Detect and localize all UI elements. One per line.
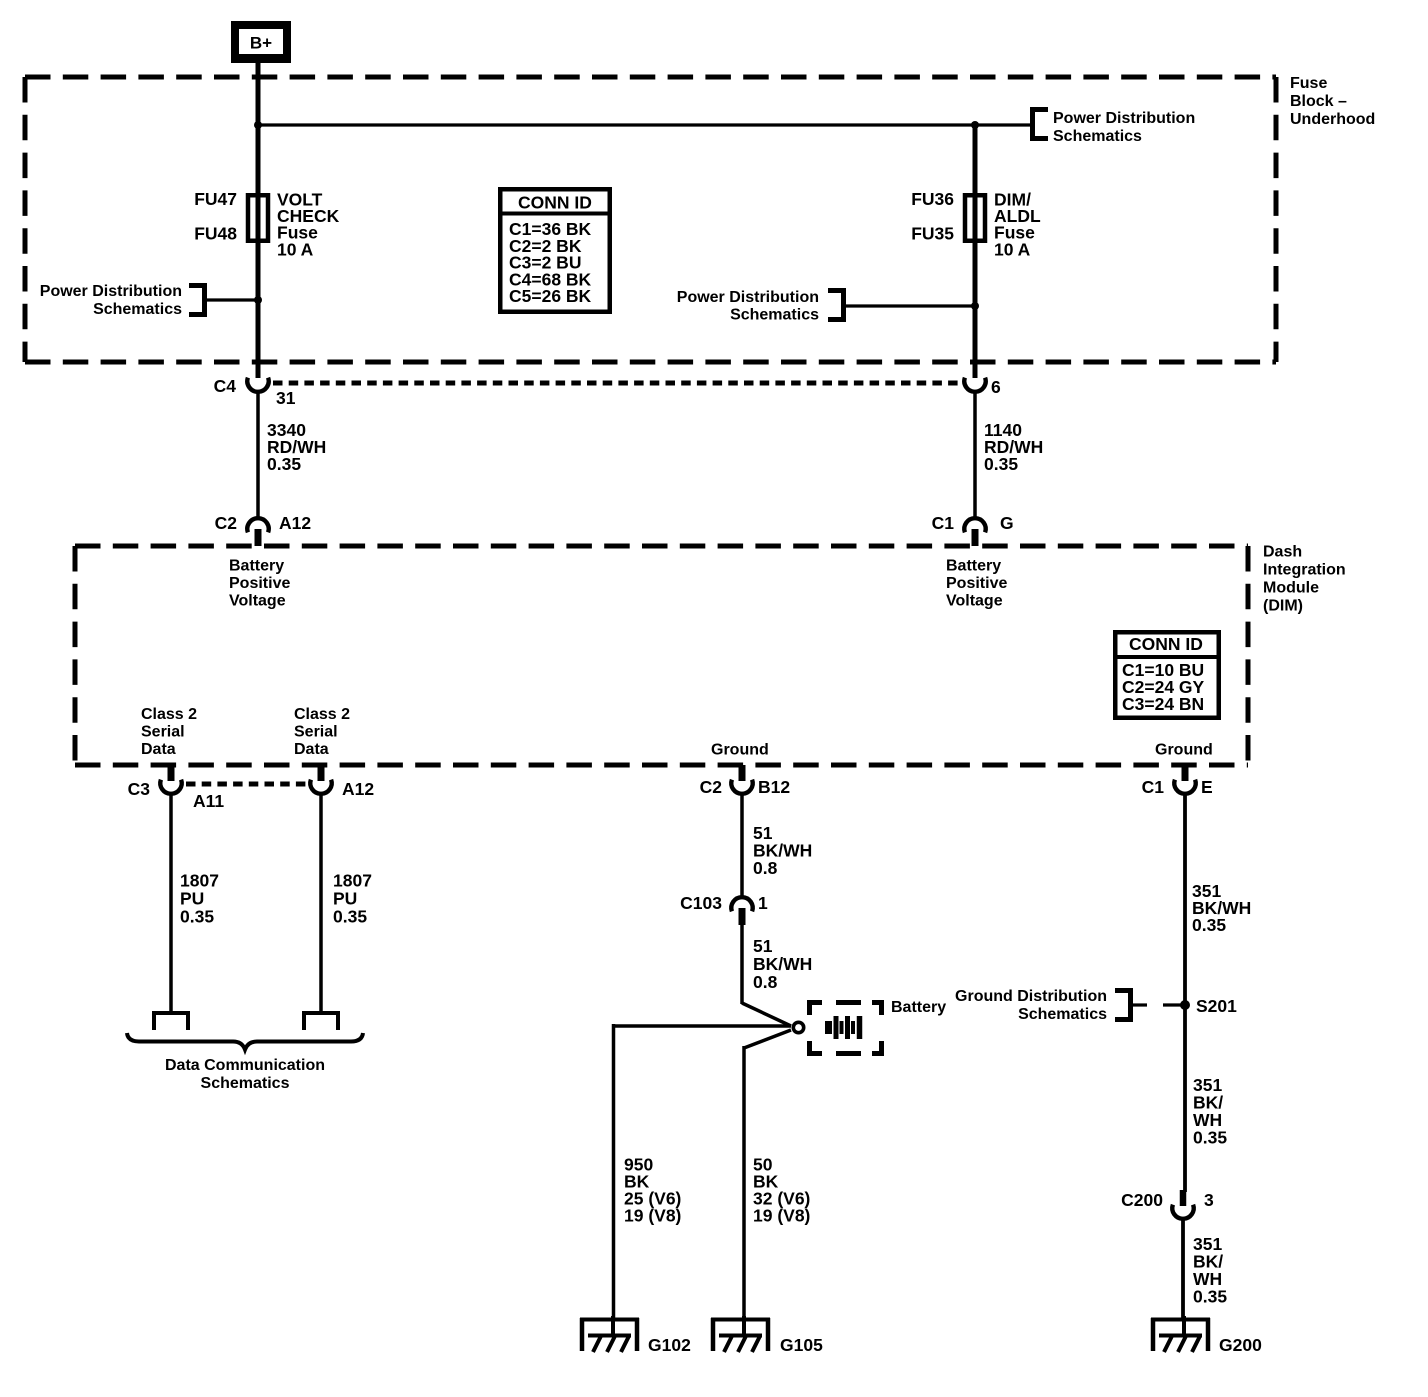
svg-text:Ground: Ground <box>711 742 769 759</box>
svg-text:Module: Module <box>1263 580 1319 597</box>
label S201 <box>1196 996 1237 1016</box>
wire ground bus horizontal to battery node <box>612 1024 791 1028</box>
battery component dashed outline <box>807 1000 884 1056</box>
label G105 <box>780 1335 823 1355</box>
ground G200 symbol <box>1151 1316 1210 1352</box>
label G102 <box>648 1335 691 1355</box>
connector C1 pin E (DIM ground) <box>1174 765 1195 794</box>
label wire 51 BK/WH 0.8 (upper) <box>753 823 812 878</box>
label Dash Integration Module (DIM) <box>1263 544 1346 615</box>
svg-text:FU48: FU48 <box>194 223 237 243</box>
svg-text:1: 1 <box>758 893 768 913</box>
label FU48 <box>194 223 237 243</box>
svg-text:Ground Distribution: Ground Distribution <box>955 988 1107 1005</box>
svg-text:C4: C4 <box>214 376 237 396</box>
wire FU35 down to connector 6 <box>973 243 978 378</box>
svg-text:A11: A11 <box>193 791 224 811</box>
label G200 <box>1219 1335 1262 1355</box>
svg-text:Data: Data <box>294 741 329 758</box>
label class 2 serial data (right) <box>294 706 350 758</box>
label C1 <box>932 513 955 533</box>
svg-text:Dash: Dash <box>1263 544 1302 561</box>
svg-text:0.35: 0.35 <box>1193 1128 1227 1148</box>
wire diagonal C103 run to battery node <box>742 1003 791 1026</box>
wire 1807 PU right run <box>319 794 323 1013</box>
node junction on B+ bus at VOLT CHECK fuse <box>254 121 262 129</box>
wire bracket stem to DIM/ALDL fuse wire <box>846 304 975 307</box>
connector C1 pin G (DIM input) <box>964 518 985 546</box>
svg-text:Positive: Positive <box>946 575 1007 592</box>
label C2 (ground) <box>700 777 723 797</box>
node junction on B+ bus at DIM/ALDL fuse <box>971 121 979 129</box>
label wire 351 BK/WH 0.35 (middle) <box>1193 1075 1227 1148</box>
svg-text:E: E <box>1201 777 1213 797</box>
label C4 <box>214 376 237 396</box>
label ground (right) <box>1155 742 1213 759</box>
svg-text:C3: C3 <box>128 779 151 799</box>
svg-text:B12: B12 <box>758 777 790 797</box>
svg-text:Power Distribution: Power Distribution <box>677 289 819 306</box>
label C2 <box>215 513 238 533</box>
svg-text:Battery: Battery <box>229 558 284 575</box>
connector A12 (class 2 serial data) <box>310 765 331 794</box>
label C1 (ground) <box>1142 777 1165 797</box>
label wire 3340 RD/WH 0.35 <box>267 420 326 474</box>
wire diagonal battery node to G105 run <box>744 1030 791 1048</box>
fuse FU47/FU48 VOLT CHECK 10A <box>248 195 268 243</box>
svg-text:Class 2: Class 2 <box>141 706 197 723</box>
wire 1807 PU left run <box>169 794 173 1013</box>
svg-text:Battery: Battery <box>891 999 946 1016</box>
svg-text:C103: C103 <box>680 893 722 913</box>
conn id table fuse block <box>498 189 612 312</box>
wire bracket stem to VOLT CHECK fuse wire <box>207 298 258 301</box>
bracket reference power distribution (top right) <box>1030 107 1048 141</box>
svg-text:Serial: Serial <box>141 724 185 741</box>
label pin B12 <box>758 777 790 797</box>
svg-text:Block –: Block – <box>1290 93 1347 110</box>
svg-text:1807: 1807 <box>180 871 219 891</box>
svg-text:0.35: 0.35 <box>180 907 214 927</box>
svg-text:C1: C1 <box>932 513 955 533</box>
svg-text:0.8: 0.8 <box>753 858 778 878</box>
label pin A12 (DIM bottom) <box>342 779 374 799</box>
svg-text:Fuse: Fuse <box>1290 75 1327 92</box>
connector C4 pin 31 (fuse block output) <box>247 378 268 392</box>
label pin 6 <box>991 377 1001 397</box>
svg-text:19 (V8): 19 (V8) <box>753 1206 810 1226</box>
svg-text:Schematics: Schematics <box>201 1075 290 1092</box>
svg-text:BK/WH: BK/WH <box>753 954 812 974</box>
node junction at DIM/ALDL fuse wire <box>971 302 979 310</box>
node battery terminal ring <box>793 1022 803 1032</box>
svg-text:S201: S201 <box>1196 996 1237 1016</box>
wire 51 BK/WH lower run <box>740 922 744 1004</box>
wire 50 BK run to G105 <box>742 1046 746 1318</box>
wire 950 BK run to G102 <box>612 1024 616 1318</box>
svg-text:3: 3 <box>1204 1190 1214 1210</box>
svg-text:Class 2: Class 2 <box>294 706 350 723</box>
svg-text:G200: G200 <box>1219 1335 1262 1355</box>
svg-text:Positive: Positive <box>229 575 290 592</box>
svg-text:CONN ID: CONN ID <box>1129 634 1203 654</box>
fuse FU36/FU35 DIM/ALDL 10A <box>965 125 985 243</box>
svg-text:C1: C1 <box>1142 777 1165 797</box>
label wire 1807 PU 0.35 (right) <box>333 871 372 927</box>
wire stem segment to S201 splice <box>1163 1003 1183 1006</box>
svg-text:G: G <box>1000 513 1014 533</box>
splice S201 node <box>1180 1000 1190 1010</box>
bracket reference power distribution (mid right) <box>828 288 846 322</box>
svg-text:Voltage: Voltage <box>229 593 286 610</box>
svg-text:10 A: 10 A <box>277 239 314 259</box>
connector C103 pin 1 <box>731 897 752 925</box>
wire bus stub to power distribution reference <box>975 123 1030 126</box>
terminal symbol left (data link) <box>154 1013 188 1030</box>
svg-text:0.35: 0.35 <box>1193 1287 1227 1307</box>
connector C2 pin B12 (DIM ground) <box>731 765 752 794</box>
svg-text:Power Distribution: Power Distribution <box>1053 110 1195 127</box>
wire B+ feed down to fuse FU47/FU48 <box>256 61 261 195</box>
label pin A11 <box>193 791 224 811</box>
label data communication schematics <box>165 1057 325 1092</box>
label wire 351 BK/WH 0.35 (lower) <box>1193 1234 1227 1307</box>
label DIM/ ALDL Fuse 10 A <box>994 190 1041 260</box>
label pin A12 <box>279 513 311 533</box>
connector C3 pin A11 (class 2 serial data) <box>160 765 181 794</box>
dotted connector tie line C3 to A12 <box>186 782 307 787</box>
label pin E <box>1201 777 1213 797</box>
svg-text:Schematics: Schematics <box>93 301 182 318</box>
label wire 50 BK 32 (V6) 19 (V8) <box>753 1155 810 1226</box>
svg-text:FU47: FU47 <box>194 189 237 209</box>
label power distribution schematics (mid right) <box>677 289 819 324</box>
svg-text:Battery: Battery <box>946 558 1001 575</box>
label Fuse Block - Underhood <box>1290 75 1375 128</box>
wire FU48 down to connector C4 <box>256 243 261 378</box>
svg-text:Power Distribution: Power Distribution <box>40 283 182 300</box>
dash integration module dashed box <box>75 546 1248 765</box>
svg-text:A12: A12 <box>279 513 311 533</box>
svg-text:C2: C2 <box>700 777 723 797</box>
svg-text:B+: B+ <box>250 34 272 53</box>
ground G102 symbol <box>580 1316 639 1352</box>
conn id table DIM <box>1113 632 1221 718</box>
svg-text:31: 31 <box>276 388 296 408</box>
label ground (mid) <box>711 742 769 759</box>
bracket reference ground distribution <box>1115 988 1133 1022</box>
terminal symbol right (data link) <box>304 1013 338 1030</box>
label class 2 serial data (left) <box>141 706 197 758</box>
node junction at VOLT CHECK fuse wire <box>254 296 262 304</box>
svg-text:0.35: 0.35 <box>984 454 1018 474</box>
fuse block underhood dashed box <box>25 77 1276 362</box>
svg-text:0.35: 0.35 <box>333 907 367 927</box>
wire 351 BK/WH upper run <box>1183 794 1187 1192</box>
label battery positive voltage (left) <box>229 558 290 610</box>
svg-text:C5=26 BK: C5=26 BK <box>509 286 592 306</box>
B+ battery positive terminal symbol <box>231 21 291 63</box>
svg-text:Voltage: Voltage <box>946 593 1003 610</box>
svg-text:0.35: 0.35 <box>267 454 301 474</box>
label pin G <box>1000 513 1014 533</box>
svg-text:Data: Data <box>141 741 176 758</box>
wire 1140 RD/WH from 6 to C1 <box>973 392 977 518</box>
brace data communication schematics <box>127 1033 363 1050</box>
label pin 31 <box>276 388 296 408</box>
svg-text:C3=24 BN: C3=24 BN <box>1122 694 1204 714</box>
label VOLT CHECK Fuse 10 A <box>277 190 340 260</box>
svg-text:CONN ID: CONN ID <box>518 193 592 213</box>
label power distribution schematics (left) <box>40 283 182 318</box>
label wire 351 BK/WH 0.35 (upper) <box>1192 881 1251 935</box>
dotted connector tie line C4 to 6 <box>273 381 961 386</box>
label FU47 <box>194 189 237 209</box>
label wire 1807 PU 0.35 (left) <box>180 871 219 927</box>
svg-text:C200: C200 <box>1121 1190 1163 1210</box>
svg-text:Serial: Serial <box>294 724 338 741</box>
svg-text:Schematics: Schematics <box>1053 128 1142 145</box>
svg-text:0.8: 0.8 <box>753 972 778 992</box>
svg-text:Schematics: Schematics <box>730 307 819 324</box>
svg-text:51: 51 <box>753 936 773 956</box>
label wire 1140 RD/WH 0.35 <box>984 420 1043 474</box>
label battery positive voltage (right) <box>946 558 1007 610</box>
label FU35 <box>911 223 954 243</box>
svg-text:Schematics: Schematics <box>1018 1006 1107 1023</box>
svg-text:Integration: Integration <box>1263 562 1346 579</box>
label battery <box>891 999 946 1016</box>
label pin 3 <box>1204 1190 1214 1210</box>
svg-text:1807: 1807 <box>333 871 372 891</box>
connector 6 (fuse block output) <box>964 378 985 392</box>
label power distribution schematics (top right) <box>1053 110 1195 145</box>
svg-text:Data Communication: Data Communication <box>165 1057 325 1074</box>
connector C200 pin 3 <box>1172 1190 1193 1219</box>
svg-text:(DIM): (DIM) <box>1263 598 1303 615</box>
label C3 <box>128 779 151 799</box>
connector C2 pin A12 (DIM input) <box>247 518 268 546</box>
wire 351 BK/WH lower run to G200 <box>1181 1219 1185 1318</box>
label pin 1 <box>758 893 768 913</box>
svg-text:PU: PU <box>333 889 357 909</box>
svg-text:19 (V8): 19 (V8) <box>624 1206 681 1226</box>
label C200 <box>1121 1190 1163 1210</box>
label FU36 <box>911 189 954 209</box>
bracket reference power distribution (left) <box>189 283 207 317</box>
svg-text:10 A: 10 A <box>994 239 1031 259</box>
label ground distribution schematics <box>955 988 1107 1023</box>
svg-text:PU: PU <box>180 889 204 909</box>
svg-text:Ground: Ground <box>1155 742 1213 759</box>
svg-text:Underhood: Underhood <box>1290 111 1375 128</box>
svg-text:FU36: FU36 <box>911 189 954 209</box>
wire 51 BK/WH upper run <box>740 794 744 897</box>
svg-text:6: 6 <box>991 377 1001 397</box>
label wire 51 BK/WH 0.8 (lower) <box>753 936 812 992</box>
ground G105 symbol <box>711 1316 770 1352</box>
wire bus from B+ node to DIM/ALDL fuse branch <box>258 123 975 126</box>
svg-text:G102: G102 <box>648 1335 691 1355</box>
wire bracket stem toward S201 <box>1133 1003 1147 1006</box>
label C103 <box>680 893 722 913</box>
svg-text:0.35: 0.35 <box>1192 915 1226 935</box>
svg-text:C2: C2 <box>215 513 238 533</box>
label wire 950 BK 25 (V6) 19 (V8) <box>624 1155 681 1226</box>
svg-text:FU35: FU35 <box>911 223 954 243</box>
svg-text:G105: G105 <box>780 1335 823 1355</box>
svg-text:A12: A12 <box>342 779 374 799</box>
wire 3340 RD/WH from C4 to C2 <box>256 392 260 518</box>
battery cell plates symbol <box>829 1016 860 1039</box>
